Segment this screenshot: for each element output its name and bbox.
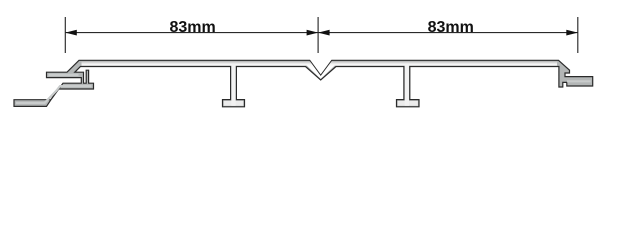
svg-text:83mm: 83mm	[428, 19, 474, 36]
svg-text:83mm: 83mm	[169, 19, 215, 36]
